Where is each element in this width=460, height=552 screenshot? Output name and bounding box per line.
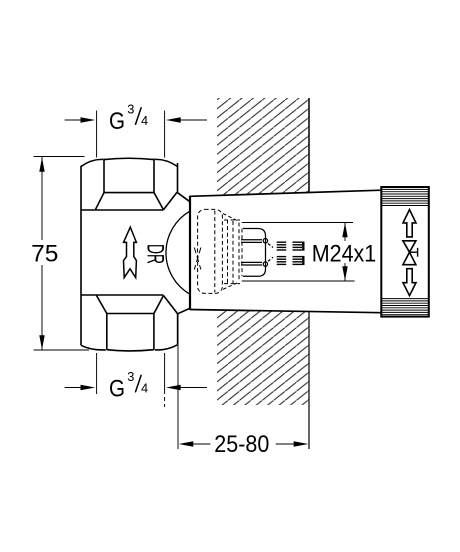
svg-text:3: 3: [127, 102, 134, 117]
svg-text:DR: DR: [142, 244, 169, 264]
svg-text:75: 75: [31, 241, 58, 268]
svg-text:25-80: 25-80: [214, 431, 269, 458]
svg-text:4: 4: [141, 113, 148, 128]
svg-text:G: G: [109, 375, 125, 402]
svg-text:3: 3: [127, 369, 134, 384]
svg-text:4: 4: [141, 381, 148, 396]
svg-text:M24x1: M24x1: [312, 240, 377, 267]
svg-text:G: G: [109, 108, 125, 135]
